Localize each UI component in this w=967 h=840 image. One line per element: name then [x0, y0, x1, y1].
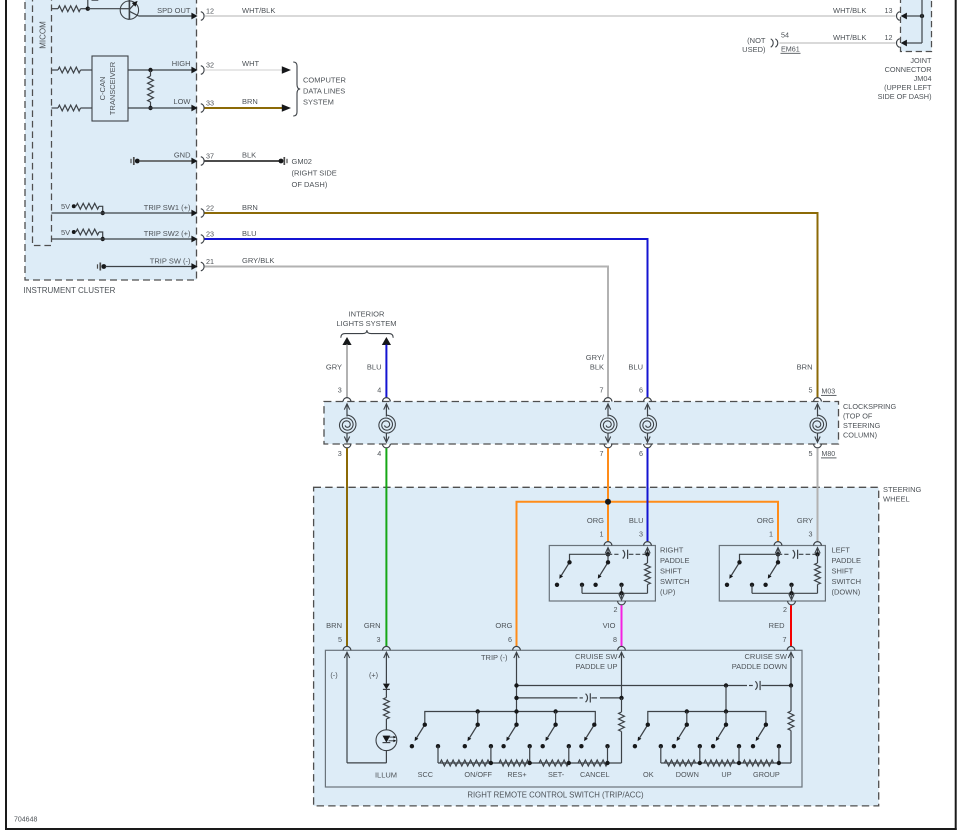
node (termination top)	[148, 68, 152, 72]
svg-text:1: 1	[769, 530, 773, 539]
svg-text:INSTRUMENT CLUSTER: INSTRUMENT CLUSTER	[24, 286, 116, 295]
svg-text:37: 37	[206, 151, 214, 160]
svg-text:5: 5	[338, 635, 342, 644]
contact (OK open)	[633, 744, 637, 748]
label (+)	[369, 671, 378, 680]
svg-text:33: 33	[206, 98, 214, 107]
svg-text:12: 12	[885, 33, 893, 42]
label pin 6 (clockspring bottom)	[639, 449, 643, 458]
wire WHT/BLK (EM61 to JM04 pin12)	[780, 42, 896, 44]
node (pin7 junction)	[789, 683, 793, 687]
pin 2 terminal (right paddle)	[618, 593, 626, 605]
svg-text:SIDE OF DASH): SIDE OF DASH)	[878, 92, 932, 101]
svg-text:13: 13	[885, 6, 893, 15]
pin 32 connector (instrument cluster)	[191, 60, 214, 74]
label pin 7 (switch)	[783, 635, 787, 644]
wire (bottom rail, left paddle)	[752, 592, 818, 594]
resistor (CAN termination)	[148, 70, 154, 108]
5V pull-up (trip sw2)	[61, 228, 105, 241]
switch ON/OFF	[468, 723, 480, 742]
switch RES+	[506, 723, 518, 742]
ground GM02	[279, 157, 287, 165]
pin 21 connector (instrument cluster)	[191, 257, 214, 271]
label SET-	[548, 770, 565, 779]
svg-text:4: 4	[377, 449, 381, 458]
label GRY (pin3)	[326, 363, 342, 372]
svg-text:BLU: BLU	[242, 229, 257, 238]
svg-text:SHIFT: SHIFT	[832, 567, 854, 576]
brace (interior lights)	[341, 330, 393, 338]
svg-text:54: 54	[781, 31, 789, 40]
wire (left ladder rail)	[438, 762, 622, 764]
svg-text:1: 1	[600, 530, 604, 539]
node (down pivot tap)	[685, 709, 689, 724]
node (termination bottom)	[148, 106, 152, 110]
in-line connector EM61 (not used)	[771, 39, 778, 47]
pin 1 terminal (right paddle)	[604, 542, 612, 555]
wire HIGH (transceiver to pin 32)	[128, 69, 192, 71]
svg-text:2: 2	[783, 605, 787, 614]
joint connector JM04 box	[901, 0, 932, 52]
label (NOT USED)	[742, 36, 766, 54]
pin 33 connector (instrument cluster)	[191, 98, 214, 112]
wire BRN (pin22 to clockspring pin5)	[205, 213, 818, 398]
label GND	[174, 151, 191, 160]
instrument cluster box	[25, 0, 197, 280]
svg-text:(UP): (UP)	[660, 588, 676, 597]
C-CAN transceiver U1	[92, 56, 128, 121]
svg-text:PADDLE: PADDLE	[660, 556, 689, 565]
svg-text:(TOP OF: (TOP OF	[843, 412, 873, 421]
label LOW	[173, 97, 191, 106]
label RES+	[507, 770, 526, 779]
label TRIP SW1 (+)	[144, 203, 191, 212]
label WHT/BLK (right)	[833, 6, 866, 15]
label BLU (pin4)	[367, 363, 382, 372]
wire BLK (pin 37 to GM02)	[205, 160, 282, 162]
capacitor (cruise paddle up)	[586, 693, 622, 702]
wire TRIP SW1 (+) internal	[52, 212, 193, 214]
resistor (cruise paddle down)	[788, 686, 794, 764]
label pin 3 (clockspring bottom)	[338, 449, 342, 458]
svg-text:CLOCKSPRING: CLOCKSPRING	[843, 402, 896, 411]
wire (pin6 cap rail)	[517, 697, 583, 699]
switch DOWN	[677, 723, 689, 742]
node pin2 junction (right paddle)	[619, 591, 623, 595]
pin 6 terminal (switch)	[513, 646, 521, 724]
label pin 12 (JM04)	[885, 33, 893, 42]
svg-text:BRN: BRN	[326, 621, 342, 630]
pin 3 terminal (right paddle)	[644, 542, 652, 555]
contact (SET- out)	[567, 744, 571, 763]
label EM61	[781, 45, 801, 54]
contact (RES+ open)	[501, 744, 505, 748]
svg-text:704648: 704648	[14, 817, 37, 824]
svg-text:WHT/BLK: WHT/BLK	[833, 33, 866, 42]
node (set- pivot tap)	[553, 709, 557, 724]
svg-text:PADDLE UP: PADDLE UP	[576, 662, 618, 671]
wire ORG (branch to left paddle pin1)	[608, 502, 778, 542]
svg-text:ORG: ORG	[495, 621, 512, 630]
svg-text:COLUMN): COLUMN)	[843, 431, 877, 440]
contact (SCC out)	[436, 744, 440, 763]
right remote control switch box	[325, 650, 802, 787]
label STEERING WHEEL	[883, 485, 922, 503]
resistor (right paddle)	[645, 554, 651, 593]
contact (sw A nc, left paddle)	[725, 583, 729, 587]
ground symbol (trip sw -)	[98, 263, 107, 271]
switch CANCEL	[584, 723, 596, 742]
label HIGH	[172, 59, 191, 68]
svg-text:7: 7	[600, 449, 604, 458]
svg-text:GRY/BLK: GRY/BLK	[242, 256, 274, 265]
svg-text:SWITCH: SWITCH	[660, 577, 690, 586]
switch OK	[638, 723, 650, 742]
svg-text:PADDLE: PADDLE	[832, 556, 861, 565]
svg-text:GRY/: GRY/	[586, 353, 605, 362]
clockspring coil (pin 5)	[810, 398, 826, 448]
wire SPD OUT (to pin 12)	[139, 15, 192, 17]
resistor (down-up)	[704, 760, 735, 766]
svg-text:UP: UP	[721, 770, 731, 779]
node (down ladder tap)	[698, 761, 702, 765]
wire (left pivot rail)	[425, 712, 596, 725]
label (-)	[330, 671, 337, 680]
switch B (right paddle)	[598, 560, 610, 579]
svg-text:MICOM: MICOM	[39, 21, 48, 49]
svg-text:3: 3	[338, 385, 342, 394]
label BRN (CAN low)	[242, 97, 258, 106]
label UP	[721, 770, 731, 779]
pin 22 connector (instrument cluster)	[191, 203, 214, 217]
svg-text:BRN: BRN	[797, 363, 813, 372]
svg-text:(DOWN): (DOWN)	[832, 588, 861, 597]
label GRN (below clockspring)	[364, 621, 381, 630]
wire BRN (clockspring pin3 to switch pin5)	[346, 448, 348, 646]
wire GRY (clockspring pin3 up)	[346, 345, 348, 398]
label BRN (below clockspring)	[326, 621, 342, 630]
svg-text:JM04: JM04	[914, 74, 932, 83]
label GRY (left paddle)	[797, 516, 813, 525]
MICOM box	[33, 0, 52, 246]
svg-text:(RIGHT SIDE: (RIGHT SIDE	[292, 169, 337, 178]
steering wheel box	[314, 487, 879, 806]
switch GROUP	[756, 723, 768, 742]
node (cancel tap)	[605, 761, 609, 765]
label TRIP (-)	[481, 653, 508, 662]
label pin 8 (switch)	[613, 635, 617, 644]
resistor (illumination)	[384, 698, 390, 730]
node ORG branch	[605, 499, 611, 505]
svg-text:LEFT: LEFT	[832, 546, 851, 555]
label COMPUTER DATA LINES SYSTEM	[303, 76, 347, 107]
label CRUISE SW PADDLE DOWN	[732, 652, 788, 671]
node (pin6 cap junction)	[514, 696, 518, 700]
svg-text:STEERING: STEERING	[843, 421, 881, 430]
label WHT	[242, 59, 259, 68]
label CRUISE SW PADDLE UP	[575, 652, 618, 671]
svg-text:SYSTEM: SYSTEM	[303, 98, 334, 107]
contact (UP out)	[737, 744, 741, 763]
wire (pin1 to switch A pivot, left paddle)	[740, 554, 779, 562]
pin 1 terminal (left paddle)	[774, 542, 782, 555]
svg-text:WHT/BLK: WHT/BLK	[833, 6, 866, 15]
clockspring coil (pin 4)	[379, 398, 395, 448]
node (res+ tap)	[528, 761, 532, 765]
svg-text:PADDLE DOWN: PADDLE DOWN	[732, 662, 787, 671]
svg-text:ORG: ORG	[757, 516, 774, 525]
label SPD OUT	[157, 6, 191, 15]
svg-text:8: 8	[613, 635, 617, 644]
resistor (ok-down)	[665, 760, 696, 766]
wire GRN (clockspring pin4 to switch pin3)	[385, 448, 387, 646]
svg-text:(NOT: (NOT	[747, 36, 766, 45]
node pin3 junction (right paddle)	[645, 552, 649, 556]
pin 7 terminal (switch)	[787, 646, 795, 685]
svg-text:TRIP SW (-): TRIP SW (-)	[150, 257, 191, 266]
label pin 6 (clockspring top)	[639, 385, 643, 394]
label GRY/BLK (trip sw -)	[242, 256, 274, 265]
node (on/off tap)	[489, 761, 493, 765]
wire ORG (clockspring pin7 down)	[607, 448, 609, 541]
wire BLU (clockspring pin4 up)	[385, 345, 387, 398]
resistor (CAN low input)	[52, 105, 93, 111]
contact (sw A out, left paddle)	[750, 583, 754, 594]
svg-text:VIO: VIO	[603, 621, 616, 630]
svg-text:TRIP (-): TRIP (-)	[481, 653, 508, 662]
svg-text:TRIP SW2 (+): TRIP SW2 (+)	[144, 229, 191, 238]
svg-text:3: 3	[377, 635, 381, 644]
label GROUP	[753, 770, 780, 779]
label WHT/BLK (pin 12 row)	[833, 33, 866, 42]
svg-text:LIGHTS SYSTEM: LIGHTS SYSTEM	[336, 319, 396, 328]
label WHT/BLK (left)	[242, 6, 275, 15]
contact (SET- open)	[541, 744, 545, 748]
svg-text:BLK: BLK	[590, 363, 604, 372]
diode (illumination)	[383, 684, 390, 698]
label pin 1 (left paddle)	[769, 530, 773, 539]
svg-text:EM61: EM61	[781, 45, 800, 54]
svg-text:ORG: ORG	[587, 516, 604, 525]
label CLOCKSPRING (TOP OF STEERING COLUMN)	[843, 402, 896, 440]
svg-text:3: 3	[639, 530, 643, 539]
label RIGHT REMOTE CONTROL SWITCH (TRIP/ACC)	[467, 791, 644, 800]
JM04 pin 13 connector	[896, 12, 922, 21]
resistor (cruise paddle up)	[619, 698, 625, 763]
label ORG (right paddle)	[587, 516, 604, 525]
label RIGHT PADDLE SHIFT SWITCH (UP)	[660, 546, 690, 597]
svg-text:21: 21	[206, 257, 214, 266]
right paddle shift switch box	[549, 546, 655, 602]
node (on/off pivot tap)	[476, 709, 480, 724]
wire LOW (transceiver to pin 33)	[128, 107, 192, 109]
contact (GROUP out)	[777, 744, 781, 763]
label connector M80	[821, 451, 837, 458]
pin 12 connector (instrument cluster)	[191, 6, 214, 20]
contact (sw A nc, right paddle)	[555, 583, 559, 587]
label ON/OFF	[464, 770, 492, 779]
capacitor (cruise paddle down)	[755, 681, 791, 690]
ground symbol (cluster internal)	[131, 157, 140, 165]
node (up ladder tap)	[737, 761, 741, 765]
svg-text:INTERIOR: INTERIOR	[349, 310, 385, 319]
label pin 4 (clockspring bottom)	[377, 449, 381, 458]
wire WHT (CAN high)	[205, 69, 284, 71]
svg-text:C-CAN: C-CAN	[98, 77, 107, 101]
svg-text:32: 32	[206, 60, 214, 69]
contact (sw A out, right paddle)	[580, 583, 584, 594]
svg-text:(+): (+)	[369, 671, 378, 680]
svg-text:(-): (-)	[330, 671, 337, 680]
svg-text:SHIFT: SHIFT	[660, 567, 682, 576]
wire ORG (branch to trip- pin6)	[517, 502, 609, 646]
svg-text:ILLUM: ILLUM	[375, 770, 397, 779]
svg-text:SPD OUT: SPD OUT	[157, 6, 191, 15]
svg-text:GRY: GRY	[797, 516, 813, 525]
svg-text:OF DASH): OF DASH)	[292, 180, 328, 189]
pin 2 terminal (left paddle)	[788, 593, 796, 605]
svg-text:CRUISE SW: CRUISE SW	[575, 652, 618, 661]
svg-text:5V: 5V	[61, 228, 70, 237]
label SCC	[418, 770, 433, 779]
label pin 13	[885, 6, 893, 15]
wire RED (left paddle pin2 to switch pin7)	[790, 605, 792, 646]
label pin 1 (right paddle)	[600, 530, 604, 539]
label GRY/BLK (above clockspring)	[586, 353, 605, 372]
label BLU (trip sw2)	[242, 229, 257, 238]
contact (CANCEL open)	[579, 744, 583, 748]
switch SET-	[545, 723, 557, 742]
clockspring box	[324, 402, 839, 445]
label pin 4 (clockspring top)	[377, 385, 381, 394]
label TRIP SW2 (+)	[144, 229, 191, 238]
clockspring coil (pin 3)	[339, 398, 355, 448]
clockspring coil (pin 7)	[600, 398, 616, 448]
svg-text:RIGHT REMOTE CONTROL SWITCH (T: RIGHT REMOTE CONTROL SWITCH (TRIP/ACC)	[467, 791, 644, 800]
svg-text:23: 23	[206, 229, 214, 238]
svg-text:22: 22	[206, 203, 214, 212]
pin 23 connector (instrument cluster)	[191, 229, 214, 243]
node (res+ pivot tap)	[514, 709, 518, 713]
wire GRY (clockspring pin5 to left paddle pin3)	[817, 448, 819, 541]
label CANCEL	[580, 770, 610, 779]
svg-text:DOWN: DOWN	[676, 770, 699, 779]
label GM02 (RIGHT SIDE OF DASH)	[292, 157, 337, 189]
wire (right pivot rail)	[648, 712, 766, 725]
label TRIP SW (-)	[150, 257, 191, 266]
label BRN (trip sw1)	[242, 203, 258, 212]
node (rail to OK/UP ladder)	[724, 683, 728, 687]
svg-text:GM02: GM02	[292, 157, 312, 166]
resistor (left paddle)	[815, 554, 821, 593]
pin 8 terminal (switch)	[618, 646, 626, 698]
wire (pin1 down to switch B, left paddle)	[777, 554, 779, 562]
contact (DOWN open)	[672, 744, 676, 748]
5V pull-up (trip sw1)	[61, 202, 105, 215]
svg-text:CANCEL: CANCEL	[580, 770, 610, 779]
arrow (interior lights, gry)	[342, 337, 351, 345]
svg-text:3: 3	[338, 449, 342, 458]
label pin 7 (clockspring top)	[600, 385, 604, 394]
contact (GROUP open)	[751, 744, 755, 748]
arrow (to computer data lines, low)	[282, 104, 291, 111]
svg-text:WHT/BLK: WHT/BLK	[242, 6, 275, 15]
label INSTRUMENT CLUSTER	[24, 286, 116, 295]
transistor Q1 (speed signal output)	[120, 0, 138, 19]
wire GND (internal)	[139, 160, 192, 162]
wire (pin1 to switch A pivot, right paddle)	[570, 554, 609, 562]
node (set- tap)	[567, 761, 571, 765]
resistor (res+-set-)	[539, 760, 569, 766]
svg-text:BLU: BLU	[367, 363, 382, 372]
contact (RES+ out)	[528, 744, 532, 763]
contact (sw B out, right paddle)	[619, 583, 623, 594]
pin 3 terminal (left paddle)	[814, 542, 822, 555]
node (base junction)	[86, 7, 121, 11]
label pin 54	[781, 31, 789, 40]
contact (sw B out, left paddle)	[789, 583, 793, 594]
capacitor (left paddle)	[778, 550, 818, 559]
pin 37 connector (instrument cluster)	[191, 151, 214, 165]
svg-text:7: 7	[783, 635, 787, 644]
svg-text:BRN: BRN	[242, 97, 258, 106]
label pin 7 (clockspring bottom)	[600, 449, 604, 458]
resistor (up-group)	[743, 760, 774, 766]
svg-text:GRY: GRY	[326, 363, 342, 372]
label pin 5 (clockspring top)	[809, 385, 813, 394]
JM04 pin 12 connector	[896, 39, 906, 48]
label BLK	[242, 151, 256, 160]
wire (bottom rail, right paddle)	[582, 592, 648, 594]
switch A (left paddle)	[729, 560, 741, 579]
resistor (CAN high input)	[52, 67, 93, 73]
svg-text:BLU: BLU	[629, 516, 644, 525]
node pin1 junction (left paddle)	[776, 552, 780, 556]
label pin 2 (right paddle)	[614, 605, 618, 614]
svg-text:BLU: BLU	[628, 363, 643, 372]
wire (pin1 down to switch B, right paddle)	[607, 554, 609, 562]
clockspring coil (pin 6)	[640, 398, 656, 448]
label LEFT PADDLE SHIFT SWITCH (DOWN)	[832, 546, 862, 597]
svg-text:5: 5	[809, 449, 813, 458]
label pin 3 (left paddle)	[809, 530, 813, 539]
svg-text:SET-: SET-	[548, 770, 565, 779]
svg-text:GRN: GRN	[364, 621, 381, 630]
switch UP	[716, 723, 728, 742]
switch A (right paddle)	[559, 560, 571, 579]
label INTERIOR LIGHTS SYSTEM	[336, 310, 396, 329]
svg-text:12: 12	[206, 6, 214, 15]
arrow (to computer data lines, high)	[282, 66, 291, 73]
wire (rail pin6 to pin7 capacitor)	[517, 685, 753, 687]
svg-text:BLK: BLK	[242, 151, 256, 160]
svg-text:(UPPER LEFT: (UPPER LEFT	[884, 83, 932, 92]
svg-text:M03: M03	[822, 389, 836, 396]
contact (ON/OFF out)	[489, 744, 493, 763]
label VIO	[603, 621, 616, 630]
contact (DOWN out)	[698, 744, 702, 763]
label connector M03	[821, 389, 837, 396]
svg-text:TRANSCEIVER: TRANSCEIVER	[108, 61, 117, 115]
wire BLU (clockspring pin6 to right paddle pin3)	[647, 448, 649, 541]
wire (illumination return)	[347, 762, 386, 764]
svg-text:RIGHT: RIGHT	[660, 546, 684, 555]
wire TRIP SW (-) internal	[106, 266, 193, 268]
label DOWN	[676, 770, 699, 779]
wire BRN (CAN low)	[205, 107, 284, 109]
node (group ladder tap)	[777, 761, 781, 765]
label JOINT CONNECTOR JM04	[878, 56, 932, 101]
